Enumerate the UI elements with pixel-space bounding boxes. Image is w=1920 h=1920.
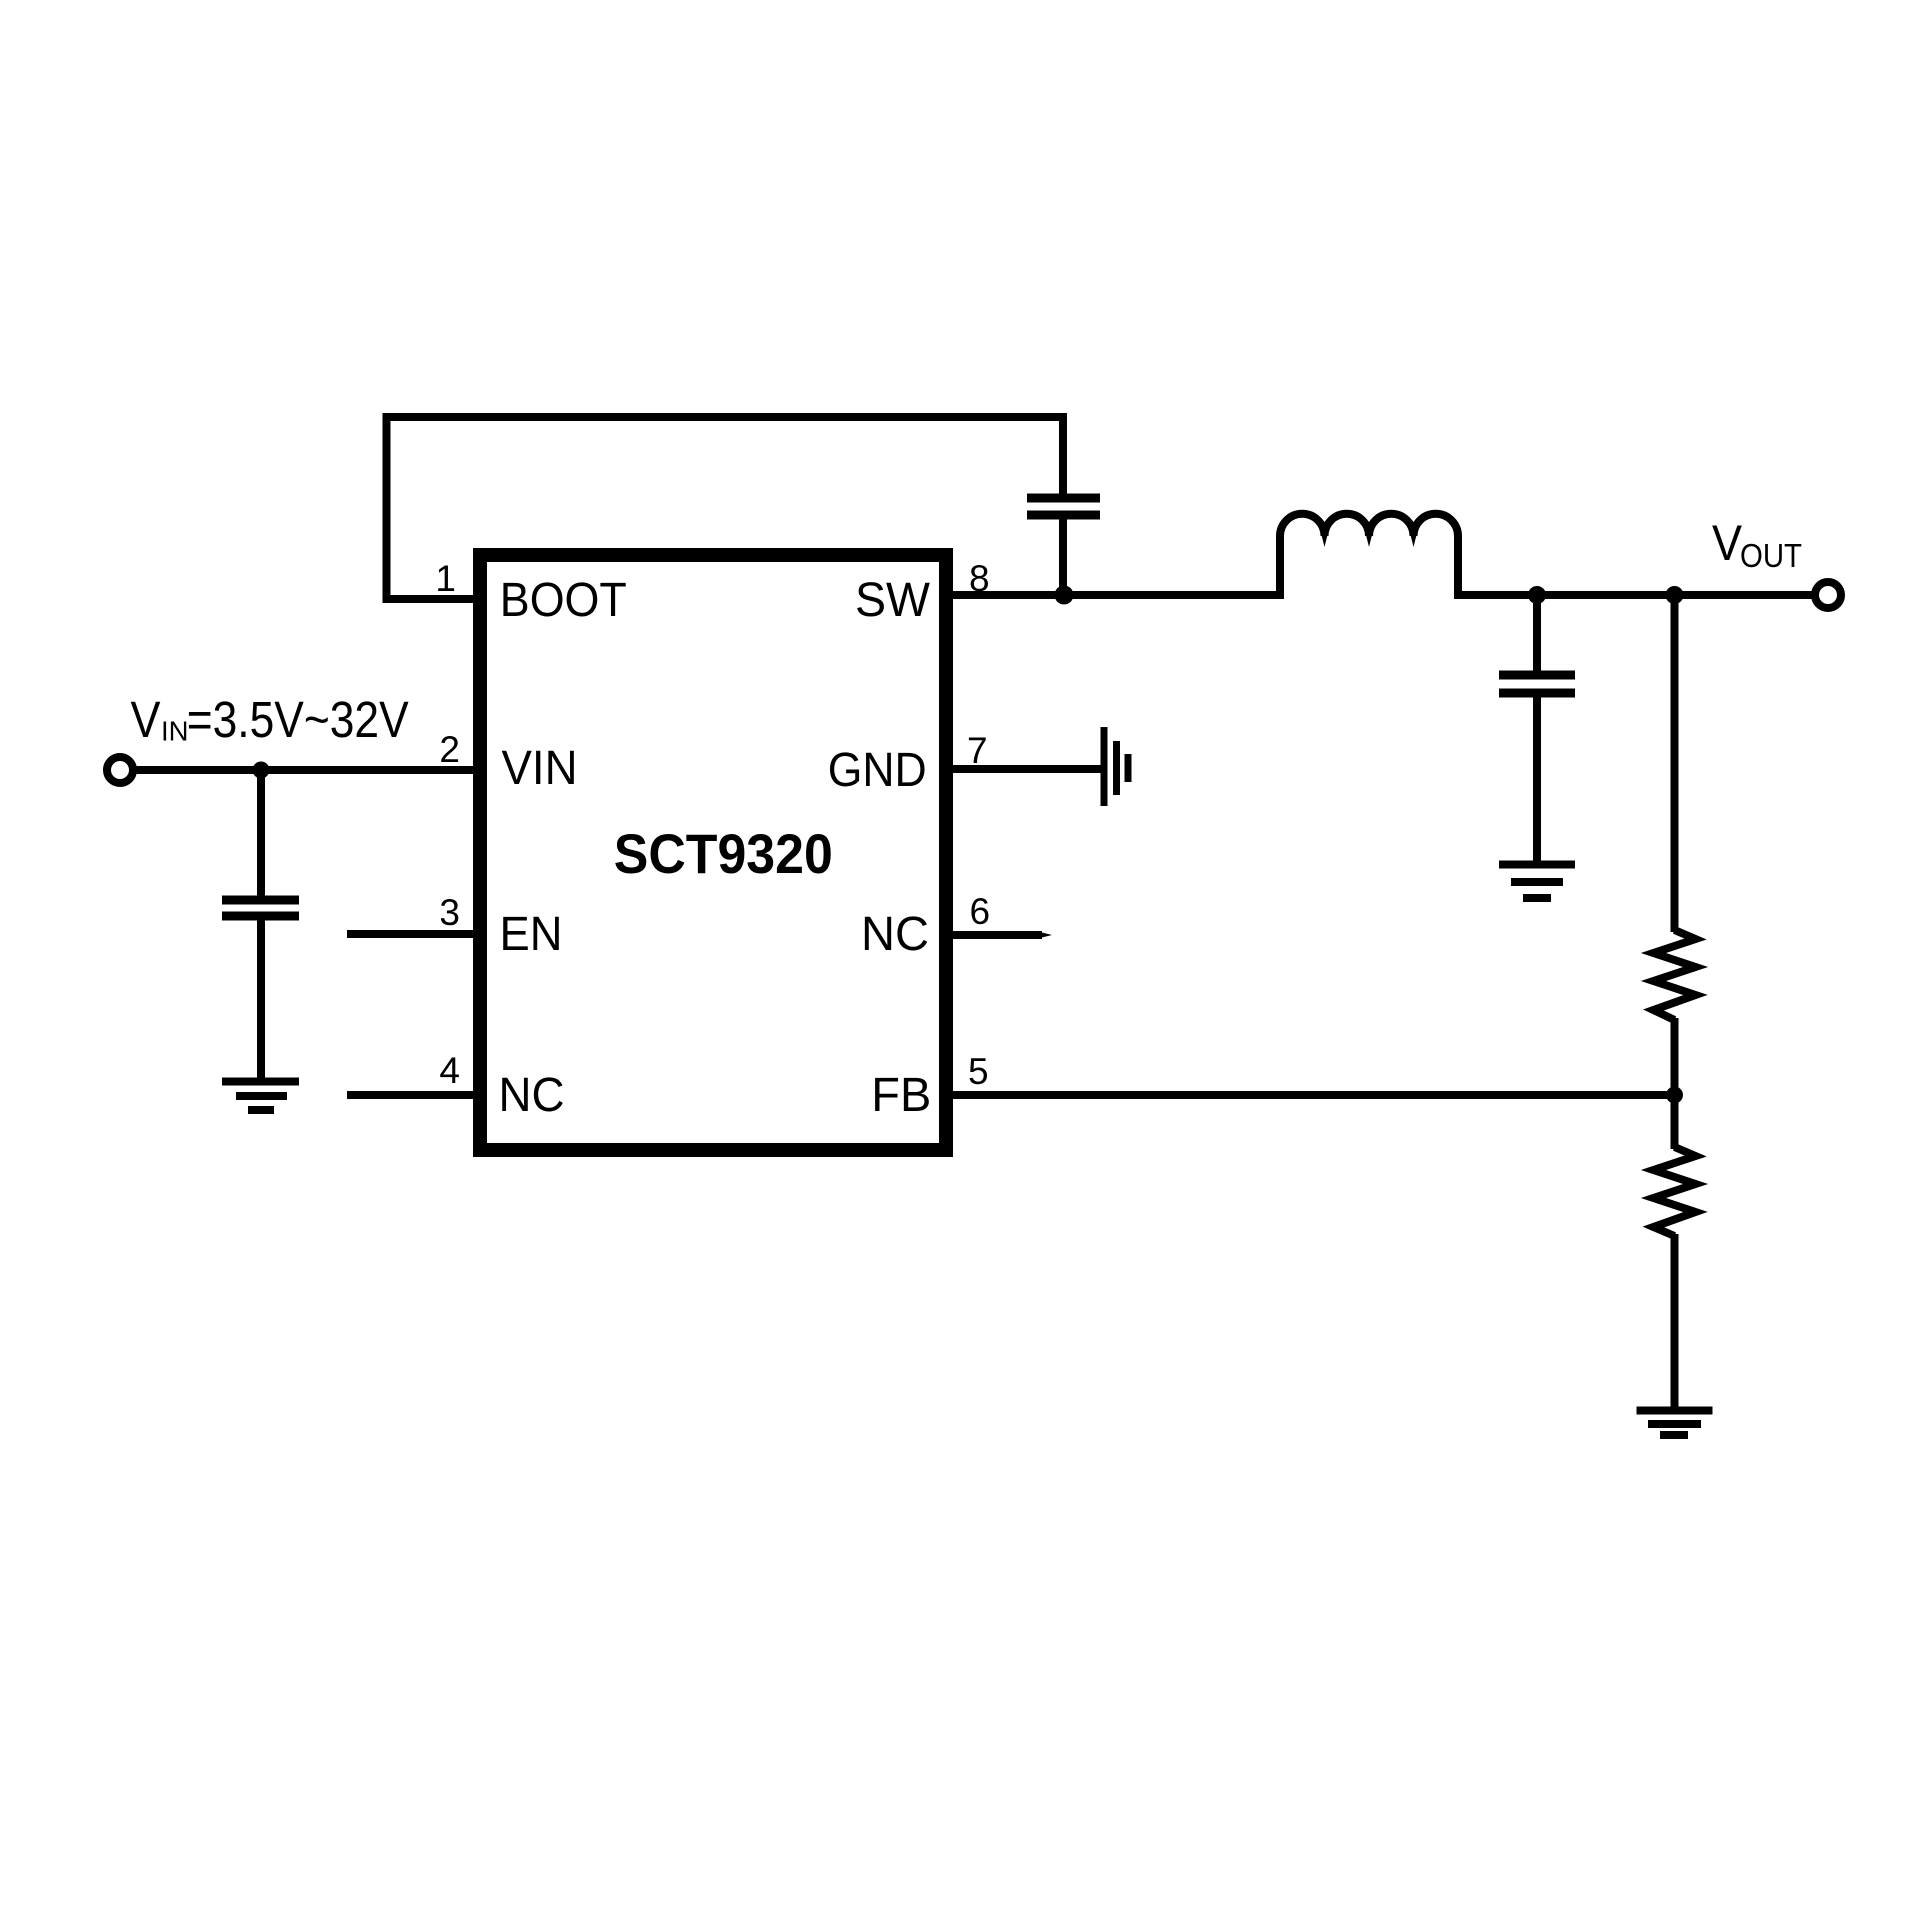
- wire SW pin8 to inductor: [953, 591, 1284, 599]
- wire VOUT node down to R1: [1671, 595, 1679, 932]
- terminal VOUT: [1815, 582, 1841, 608]
- svg-text:5: 5: [968, 1051, 989, 1092]
- capacitor C-out bottom plate: [1499, 689, 1575, 698]
- resistor R2: [1654, 1147, 1696, 1236]
- svg-text:6: 6: [970, 891, 991, 932]
- capacitor C-in bottom plate: [222, 912, 299, 921]
- wire inductor to VOUT terminal: [1454, 591, 1816, 599]
- wire boot cap bottom to SW net: [1059, 519, 1067, 595]
- wire R2 to ground: [1671, 1234, 1679, 1407]
- ground (input cap): [222, 1082, 299, 1111]
- svg-text:2: 2: [439, 729, 460, 770]
- wire FB pin5 to divider: [953, 1091, 1675, 1099]
- svg-text:NC: NC: [499, 1069, 565, 1122]
- wire EN pin3 stub: [347, 930, 473, 938]
- svg-text:GND: GND: [828, 744, 927, 797]
- junction SW/boot-cap node: [1055, 586, 1074, 605]
- junction input cap node: [253, 762, 270, 779]
- svg-text:=3.5V~32V: =3.5V~32V: [187, 691, 409, 748]
- svg-text:4: 4: [439, 1050, 460, 1091]
- svg-text:3: 3: [439, 892, 460, 933]
- wire output cap to ground: [1533, 697, 1541, 861]
- junction VOUT/divider node: [1666, 586, 1684, 604]
- wire BOOT loop (pin1 to boot cap top): [387, 417, 1064, 599]
- inductor L1: [1280, 514, 1458, 595]
- svg-text:1: 1: [435, 558, 456, 599]
- wire NC pin4 stub: [347, 1091, 473, 1099]
- wire R1 to FB node: [1671, 1018, 1679, 1149]
- wire input cap node down: [257, 770, 265, 900]
- capacitor C-in top plate: [222, 896, 299, 905]
- ground (pin7, rotated): [1104, 727, 1128, 806]
- svg-text:SCT9320: SCT9320: [614, 823, 833, 885]
- terminal VIN: [107, 757, 133, 783]
- ground (output cap): [1499, 865, 1575, 899]
- ground (R2): [1637, 1411, 1713, 1436]
- resistor R1: [1654, 930, 1696, 1020]
- IC U1 SCT9320 body: [480, 555, 946, 1150]
- svg-text:SW: SW: [855, 574, 931, 627]
- svg-text:VIN: VIN: [502, 742, 578, 795]
- wire VIN terminal to pin2: [133, 766, 473, 774]
- wire GND pin7: [953, 765, 1102, 773]
- svg-text:FB: FB: [871, 1069, 931, 1122]
- wire input cap to ground: [257, 920, 265, 1078]
- capacitor C-out top plate: [1499, 671, 1575, 680]
- svg-text:IN: IN: [161, 716, 189, 747]
- svg-text:OUT: OUT: [1740, 538, 1802, 575]
- svg-text:EN: EN: [500, 908, 563, 961]
- wire VOUT node to output capacitor: [1533, 595, 1541, 675]
- wire NC pin6 stub: [953, 931, 1042, 939]
- svg-text:7: 7: [967, 730, 988, 771]
- svg-text:NC: NC: [861, 908, 929, 961]
- svg-text:V: V: [1712, 515, 1743, 571]
- junction FB node: [1666, 1087, 1683, 1104]
- capacitor C-boot bottom plate: [1027, 511, 1100, 520]
- capacitor C-boot top plate: [1027, 494, 1100, 503]
- svg-text:BOOT: BOOT: [500, 574, 627, 627]
- junction output cap node: [1528, 586, 1546, 604]
- svg-text:V: V: [131, 691, 161, 748]
